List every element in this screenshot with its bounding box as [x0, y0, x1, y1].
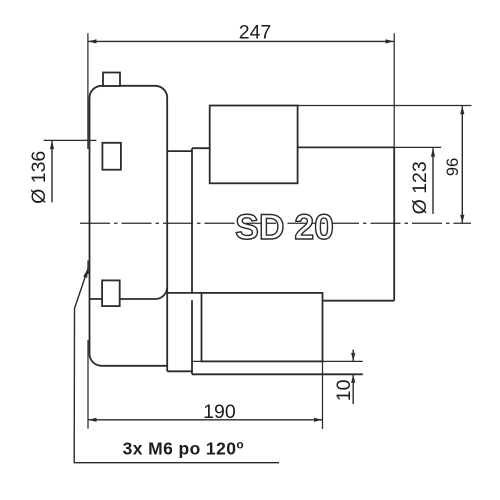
svg-text:10: 10 — [333, 379, 355, 401]
flange front edge (lower segment) — [191, 300, 193, 374]
body internal edge line with corner arc — [90, 287, 168, 299]
dim 96 top extension line — [298, 105, 472, 107]
centerline — [80, 222, 471, 224]
flange bottom edge line (extends to 10-dim) — [192, 373, 363, 375]
flange front edge (upper segment) — [191, 148, 193, 293]
dim O136 extension line — [44, 139, 97, 141]
arrow O136 up — [50, 141, 54, 150]
arrow 96 up — [460, 106, 464, 115]
dim O123 line — [432, 148, 434, 214]
dim 190 left extension line — [87, 340, 89, 429]
leader target tick — [87, 260, 89, 274]
dim 190 line — [88, 419, 323, 421]
arrow 10 up — [351, 374, 355, 383]
housing right edge — [393, 147, 395, 300]
housing bottom edge — [323, 300, 395, 302]
lower tab — [102, 280, 120, 306]
dim 10 lower arrow segment — [352, 374, 354, 404]
lower box right extension line (to 190 dim) — [322, 361, 324, 429]
lower box — [202, 293, 323, 362]
housing top-right edge — [298, 146, 395, 148]
middle left tab — [102, 143, 121, 170]
arrow O123 up — [431, 148, 435, 157]
dim 247 line — [88, 40, 394, 42]
dim 247 right extension line — [393, 33, 395, 147]
dim O136 line — [51, 141, 53, 202]
arrow 247 left — [88, 39, 97, 43]
dim 247 left extension line — [87, 33, 89, 149]
terminal box — [210, 106, 298, 184]
arrow 190 left — [88, 418, 97, 422]
body (bell housing rounded rectangle) — [90, 86, 168, 372]
svg-text:96: 96 — [444, 158, 462, 176]
neck top edge — [167, 150, 192, 152]
svg-text:SD 20: SD 20 — [235, 207, 334, 247]
dim O123 extension line — [394, 146, 441, 148]
arrow 10 down — [351, 353, 355, 362]
svg-text:190: 190 — [203, 401, 236, 423]
svg-text:3x M6 po 120o: 3x M6 po 120o — [123, 438, 244, 459]
dim 10 upper arrow segment — [352, 350, 354, 362]
leader line 3x M6 — [74, 269, 279, 463]
arrow 247 right — [386, 39, 395, 43]
housing top-left edge — [192, 147, 210, 149]
arrow 96 down — [460, 215, 464, 224]
neck bottom edge — [167, 370, 192, 372]
dim 96 line — [461, 106, 463, 224]
svg-text:Ø 136: Ø 136 — [28, 151, 50, 204]
lower box bottom extension line — [192, 360, 363, 362]
leader arrow — [83, 269, 88, 278]
svg-text:Ø 123: Ø 123 — [409, 161, 431, 214]
svg-text:247: 247 — [239, 21, 272, 43]
top tab — [103, 73, 120, 87]
arrow 190 right — [314, 418, 323, 422]
lower box top edge extension to body — [167, 292, 201, 294]
